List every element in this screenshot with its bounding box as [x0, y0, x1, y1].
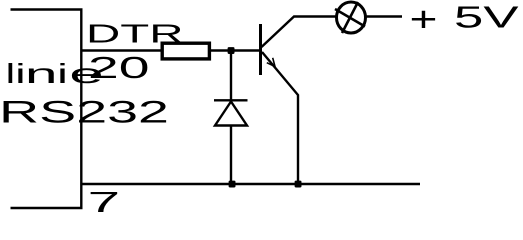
svg-text:DTR: DTR — [86, 19, 184, 49]
svg-text:e: e — [69, 58, 103, 89]
svg-text:n: n — [25, 58, 58, 89]
svg-text:7: 7 — [88, 187, 121, 216]
svg-text:l: l — [6, 58, 15, 89]
svg-text:5V: 5V — [454, 2, 520, 35]
svg-text:i: i — [57, 58, 68, 89]
svg-text:+: + — [410, 0, 438, 39]
svg-text:RS232: RS232 — [0, 94, 169, 130]
